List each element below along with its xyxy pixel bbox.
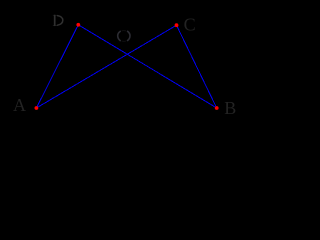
svg-text:C: C: [184, 14, 196, 34]
wire segment BC: [177, 25, 217, 108]
wire segment AC: [36, 25, 176, 108]
label D: [53, 15, 63, 25]
wire segment BD: [78, 25, 216, 108]
point C: [175, 23, 179, 27]
wire segment AD: [36, 25, 78, 108]
svg-text:A: A: [13, 95, 26, 115]
point A: [35, 106, 39, 110]
point D: [76, 23, 80, 27]
label O: [118, 31, 130, 42]
svg-text:B: B: [224, 98, 236, 118]
point B: [215, 106, 219, 110]
